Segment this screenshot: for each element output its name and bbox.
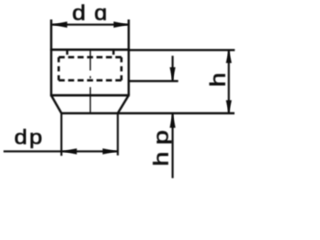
cavity bottom extension line to the right for h p [129,80,179,82]
dimension line h p lower segment [172,113,174,178]
pilot left edge extended down to d p dimension [60,113,62,156]
shoulder line [50,94,130,96]
arrowhead d p left [62,148,77,154]
hidden cavity left dashed line [58,57,60,80]
dimension line h p upper segment [172,56,174,81]
svg-text:p: p [150,130,173,145]
svg-text:h: h [150,152,173,167]
arrowhead h p up [170,113,176,128]
arrowhead d a right [114,22,129,28]
arrowhead h p down [170,67,176,81]
dimension line d a [51,24,129,26]
svg-text:h: h [206,73,229,87]
junction line with extension to the right for h and h p [61,112,234,114]
svg-text:p: p [29,125,42,148]
arrowhead d a left [52,22,67,28]
part left edge with extension up to d a dimension [50,20,52,96]
hidden top opening left dash [66,51,68,55]
hidden top opening right dash [112,51,114,55]
svg-text:d: d [14,125,27,148]
dimension line d p with leader to the left [4,150,118,152]
hidden cavity bottom dashed line [59,79,122,81]
part right edge with extension up to d a dimension [128,20,130,96]
left taper [51,95,61,113]
arrowhead d p right [103,148,118,154]
svg-text:ɑ: ɑ [94,1,107,25]
arrowhead h bottom [226,100,232,113]
dimension line h [228,50,230,113]
top face extension line to the right for h [129,49,235,51]
svg-text:d: d [72,1,86,25]
vertical center line [89,50,91,113]
part top face [50,49,130,51]
hidden cavity top dashed line [59,56,122,58]
arrowhead h top [226,50,232,63]
hidden cavity right dashed line [120,57,122,80]
pilot right edge extended down to d p dimension [117,113,119,155]
right taper [118,95,129,113]
